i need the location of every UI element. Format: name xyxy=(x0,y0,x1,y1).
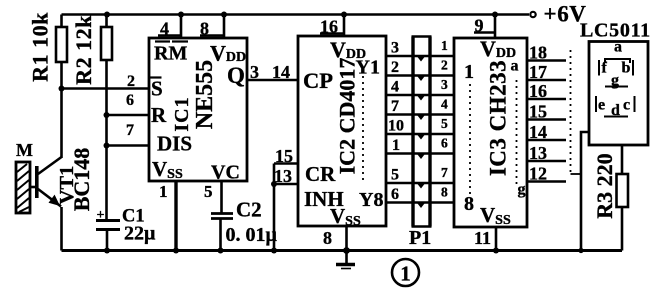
svg-text:CP: CP xyxy=(303,68,333,93)
svg-text:R3 220: R3 220 xyxy=(592,153,617,218)
svg-text:RM: RM xyxy=(154,43,187,65)
svg-text:16: 16 xyxy=(529,81,547,101)
svg-text:1: 1 xyxy=(392,137,400,154)
svg-text:a: a xyxy=(511,58,519,75)
svg-text:7: 7 xyxy=(391,98,399,115)
svg-text:13: 13 xyxy=(274,166,292,186)
svg-text:+: + xyxy=(97,208,105,223)
svg-text:15: 15 xyxy=(529,102,547,122)
svg-text:R2 12k: R2 12k xyxy=(71,15,96,85)
svg-text:M: M xyxy=(16,140,33,160)
svg-text:6: 6 xyxy=(391,186,399,203)
svg-text:14: 14 xyxy=(272,62,290,82)
svg-text:IC2 CD4017: IC2 CD4017 xyxy=(335,58,360,175)
svg-text:3: 3 xyxy=(391,40,399,57)
svg-text:S: S xyxy=(151,77,163,101)
svg-text:P1: P1 xyxy=(409,227,431,249)
svg-text:6: 6 xyxy=(441,136,448,151)
svg-text:11: 11 xyxy=(474,228,491,248)
svg-text:DIS: DIS xyxy=(157,132,192,156)
svg-text:NE555: NE555 xyxy=(192,60,218,129)
svg-text:2: 2 xyxy=(391,59,399,76)
svg-text:IC1: IC1 xyxy=(171,96,193,131)
svg-text:0. 01μ: 0. 01μ xyxy=(226,224,278,246)
svg-text:3: 3 xyxy=(250,62,259,82)
svg-text:BC148: BC148 xyxy=(69,148,94,212)
svg-text:2: 2 xyxy=(441,58,448,73)
svg-text:10: 10 xyxy=(388,118,404,135)
svg-text:4: 4 xyxy=(441,97,448,112)
svg-text:13: 13 xyxy=(529,143,547,163)
svg-text:g: g xyxy=(518,181,526,198)
svg-text:14: 14 xyxy=(529,122,547,142)
svg-text:5: 5 xyxy=(204,182,213,201)
svg-text:IC3 CH233: IC3 CH233 xyxy=(486,60,511,176)
svg-text:4: 4 xyxy=(391,79,399,96)
svg-text:12: 12 xyxy=(529,164,547,184)
svg-text:3: 3 xyxy=(441,77,448,92)
svg-text:Y8: Y8 xyxy=(359,189,383,211)
svg-text:1: 1 xyxy=(400,262,411,286)
svg-text:VC: VC xyxy=(211,162,240,184)
svg-text:8: 8 xyxy=(464,193,474,215)
svg-text:LC5011: LC5011 xyxy=(580,20,651,42)
svg-text:R: R xyxy=(151,103,167,127)
svg-text:Q: Q xyxy=(227,63,245,88)
svg-text:7: 7 xyxy=(441,165,448,180)
svg-text:15: 15 xyxy=(275,146,293,166)
svg-text:18: 18 xyxy=(529,43,547,63)
svg-text:c: c xyxy=(623,97,630,114)
svg-text:7: 7 xyxy=(126,122,134,139)
svg-text:1: 1 xyxy=(441,38,448,53)
svg-text:C2: C2 xyxy=(236,198,262,222)
svg-text:6: 6 xyxy=(126,92,134,109)
svg-text:8: 8 xyxy=(323,228,332,248)
svg-text:17: 17 xyxy=(529,62,547,82)
svg-text:CR: CR xyxy=(305,162,336,186)
svg-text:8: 8 xyxy=(441,185,448,200)
svg-text:5: 5 xyxy=(441,116,448,131)
svg-text:2: 2 xyxy=(127,73,135,90)
svg-text:1: 1 xyxy=(159,182,168,201)
svg-text:R1 10k: R1 10k xyxy=(28,12,53,82)
svg-text:22μ: 22μ xyxy=(124,223,156,245)
svg-text:1: 1 xyxy=(464,61,474,83)
svg-text:5: 5 xyxy=(391,167,399,184)
svg-text:e: e xyxy=(598,97,605,114)
